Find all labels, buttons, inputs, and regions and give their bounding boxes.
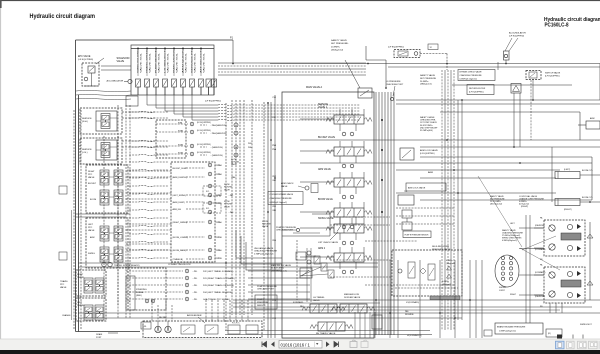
svg-text:(RED): (RED)	[136, 295, 142, 297]
right mid rails	[396, 207, 455, 209]
svg-text:SET PRESSURE:: SET PRESSURE:	[331, 43, 349, 45]
travel row P42	[126, 270, 183, 272]
service rows dashed box	[156, 120, 186, 158]
connect row PA8	[208, 163, 212, 167]
svg-text:PA2: PA2	[300, 305, 303, 308]
toolbar icon rotate 1	[350, 342, 357, 348]
bottom rail 4	[233, 306, 592, 308]
svg-text:(LF EQUIPPED): (LF EQUIPPED)	[420, 153, 435, 155]
svg-text:SWING VALVE: SWING VALVE	[318, 217, 334, 220]
svg-text:SLOW: SLOW	[224, 184, 230, 186]
connect row PB9	[208, 256, 212, 260]
svg-text:MERGE/FLOW: MERGE/FLOW	[344, 294, 360, 296]
svg-text:SERVICE: SERVICE	[82, 118, 92, 120]
svg-text:→PA8: →PA8	[216, 164, 223, 167]
svg-text:(LF EQUIPPED): (LF EQUIPPED)	[205, 101, 221, 103]
toolbar view cont facing	[589, 341, 598, 349]
svg-text:VALVE: VALVE	[224, 205, 231, 208]
svg-text:TRAVEL: TRAVEL	[60, 280, 69, 283]
svg-text:JOINT: JOINT	[499, 290, 506, 292]
svg-text:VALVE SOL: VALVE SOL	[194, 53, 197, 73]
motor right rail	[589, 222, 591, 300]
svg-text:PB0: PB0	[272, 240, 276, 242]
rail wire 7	[300, 139, 600, 141]
connector wire 1	[122, 111, 156, 113]
service row (SERVICE) 11	[156, 153, 188, 155]
svg-text:(TRAVEL/B): (TRAVEL/B)	[173, 258, 184, 261]
svg-text:PUMP R PRESSURE: PUMP R PRESSURE	[276, 227, 297, 229]
svg-text:(BOOM_RAISE): (BOOM_RAISE)	[173, 249, 187, 252]
connector wire 12	[126, 249, 172, 251]
svg-text:(RIGHT_SWING): (RIGHT_SWING)	[173, 222, 188, 224]
svg-text:PB1: PB1	[272, 206, 276, 208]
main valve right bus 7	[393, 92, 395, 335]
main valve right bus 2	[378, 92, 380, 335]
svg-text:P42N: P42N	[178, 144, 184, 146]
svg-text:CRACKING PRESSURE: CRACKING PRESSURE	[460, 74, 483, 77]
svg-text:→PA8: →PA8	[216, 173, 223, 176]
rail wire 5	[396, 103, 600, 105]
svg-text:→P8L: →P8L	[192, 299, 197, 301]
svg-text:PUMP F PRESSURE: PUMP F PRESSURE	[257, 286, 277, 288]
svg-text:→P8L: →P8L	[192, 285, 197, 287]
pilot bus vertical 4	[243, 100, 245, 315]
cooler bypass label	[268, 192, 303, 205]
svg-text:VALVE: VALVE	[88, 176, 95, 179]
svg-text:→ (SERVICE): → (SERVICE)	[209, 155, 223, 157]
main valve right bus 6	[390, 92, 392, 335]
svg-text:VALVE: VALVE	[117, 60, 125, 63]
svg-text:VALVE 1: VALVE 1	[318, 106, 328, 109]
svg-text:P43 (RIGHT TRAVEL REVERSE): P43 (RIGHT TRAVEL REVERSE)	[203, 284, 234, 287]
junction dots	[232, 63, 234, 65]
rail corner c	[599, 64, 600, 101]
svg-text:(LEFT): (LEFT)	[564, 169, 571, 171]
hose curve 3	[76, 98, 131, 99]
svg-text:P4M: P4M	[178, 122, 182, 124]
top feed wires	[218, 62, 366, 64]
svg-text:(RIGHT): (RIGHT)	[564, 209, 572, 211]
pilot hose wavy 18	[129, 257, 169, 258]
svg-text:VALVE: VALVE	[231, 163, 238, 166]
svg-text:BUCKET VALVE: BUCKET VALVE	[318, 136, 335, 139]
toolbar icon rotate 2	[361, 342, 368, 348]
return filter	[467, 85, 494, 95]
svg-text:PC160LC-8: PC160LC-8	[545, 23, 570, 29]
connector wire 9	[126, 223, 172, 225]
svg-text:RIGHT: RIGHT	[88, 171, 95, 173]
svg-text:VALVE SOL: VALVE SOL	[203, 53, 206, 73]
right travel valve box	[76, 270, 106, 296]
svg-text:VALVE SOL: VALVE SOL	[176, 53, 179, 73]
svg-text:DRAIN: DRAIN	[96, 333, 103, 336]
connector wire 5	[126, 170, 172, 172]
LF box link wire	[420, 53, 447, 55]
svg-text:ACCUMULATOR: ACCUMULATOR	[107, 80, 124, 83]
bottom rail 1b	[225, 330, 430, 332]
svg-text:(LF EQUIPPED): (LF EQUIPPED)	[197, 122, 211, 124]
RH travel spool	[318, 322, 345, 331]
svg-text:VALVE: VALVE	[313, 299, 320, 302]
svg-text:P#C P#C: P#C P#C	[232, 323, 240, 325]
svg-text:CONNECTING BLOCK: CONNECTING BLOCK	[168, 264, 191, 266]
solenoid valve spare a	[206, 79, 211, 87]
svg-text:P44 (LEFT TRAVEL REVERSE): P44 (LEFT TRAVEL REVERSE)	[203, 291, 233, 294]
svg-text:CHANGE: CHANGE	[62, 314, 71, 317]
pilot hose wavy 13	[129, 217, 169, 218]
svg-text:SWIVEL: SWIVEL	[499, 287, 507, 289]
travel row P43	[126, 284, 183, 286]
relief valve symbols inner	[321, 263, 327, 271]
bottom rail 3	[233, 299, 600, 301]
connect row PA5	[208, 193, 212, 197]
svg-text:CHECKING PORT: CHECKING PORT	[386, 84, 404, 86]
travel motor upper	[544, 220, 585, 256]
svg-text:→PA6: →PA6	[228, 211, 233, 214]
pump P1	[155, 326, 161, 332]
pilot hose wavy 6	[129, 161, 169, 162]
pilot hose wavy 1	[129, 111, 169, 112]
svg-text:SELF-REDUCING: SELF-REDUCING	[432, 246, 449, 248]
svg-text:(LF EQUIPPED): (LF EQUIPPED)	[469, 92, 484, 94]
svg-text:LEFT: LEFT	[88, 224, 94, 226]
svg-text:RIGHT: RIGHT	[510, 294, 517, 296]
staircase corner d	[282, 214, 330, 236]
pilot hose wavy 4	[129, 146, 169, 147]
svg-text:(LF EQUIPPED): (LF EQUIPPED)	[197, 144, 211, 146]
svg-text:PC1: PC1	[272, 300, 276, 302]
svg-text:P43N: P43N	[178, 130, 184, 132]
main valve left bus 2	[270, 102, 272, 338]
svg-text:SLOW: SLOW	[224, 201, 230, 203]
svg-text:(300 5kg/cm2): (300 5kg/cm2)	[490, 204, 502, 206]
svg-text:PPC: PPC	[88, 227, 93, 229]
connect row PB6	[208, 235, 212, 239]
mid horizontal rails	[78, 262, 378, 264]
inner wires lower	[293, 232, 320, 234]
connector wire 8	[126, 198, 172, 200]
pilot bus vertical 3	[239, 100, 241, 315]
EPC to solenoid wire	[101, 69, 131, 71]
right trunk verticals	[441, 70, 443, 330]
bottom verticals	[389, 260, 391, 338]
svg-text:0.9MPa(9kg/cm2): 0.9MPa(9kg/cm2)	[502, 240, 517, 242]
svg-text:VALVE: VALVE	[60, 286, 67, 289]
EPC valve spool	[88, 66, 95, 73]
left PPC valve box	[86, 218, 128, 268]
right trunk verticals2	[457, 100, 459, 320]
service row PA1(SERVICE) 8	[156, 123, 188, 125]
rail wire 11	[396, 169, 560, 171]
pilot hose wavy 10	[129, 193, 169, 194]
svg-text:→P8L: →P8L	[192, 278, 197, 280]
cylinder link wire	[551, 147, 553, 202]
toolbar background	[0, 339, 600, 350]
svg-text:P1: P1	[128, 280, 130, 282]
arm cylinder	[586, 121, 600, 129]
swing motor port mark	[557, 335, 562, 339]
pump gear box 3	[228, 325, 240, 334]
bottom rail 1c	[225, 334, 432, 336]
svg-text:SERVICE: SERVICE	[318, 104, 329, 106]
svg-text:730: 730	[404, 191, 407, 193]
svg-text:PVC: PVC	[272, 117, 277, 119]
pump gear box 2	[205, 325, 218, 334]
svg-text:BUCKET_DUMP: BUCKET_DUMP	[173, 168, 188, 170]
svg-text:PORT: PORT	[96, 337, 102, 339]
connector wire 7	[126, 192, 172, 194]
svg-text:LIFT CHECK VALVE: LIFT CHECK VALVE	[318, 241, 339, 244]
svg-text:0.3MPa(3.5kg/cm2): 0.3MPa(3.5kg/cm2)	[460, 78, 478, 80]
pilot bus junction wire	[225, 103, 227, 330]
svg-text:PA1: PA1	[273, 209, 276, 212]
bottom rail 2	[78, 317, 462, 319]
svg-text:SENSOR: SENSOR	[257, 305, 266, 307]
travel signal label	[102, 262, 106, 266]
travel row P41	[126, 277, 183, 279]
pilot bus vertical 2	[235, 100, 237, 315]
swivel joint	[495, 255, 519, 287]
svg-text:(LF EQU PRES): (LF EQU PRES)	[78, 59, 93, 61]
svg-text:→ (SERVICE): → (SERVICE)	[209, 147, 223, 149]
LF small tag	[428, 44, 438, 50]
svg-text:LS PRESSURE: LS PRESSURE	[386, 81, 401, 83]
toolbar btn prev page	[271, 342, 275, 348]
svg-text:ARM LOCK VALVE: ARM LOCK VALVE	[408, 187, 426, 190]
svg-text:P41: P41	[273, 97, 276, 99]
connector wire 11	[126, 243, 172, 245]
bottom rail 6	[250, 309, 560, 311]
right PPC valve box	[86, 165, 128, 213]
service row (SERVICE) 10	[156, 145, 188, 147]
svg-text:#PA6: #PA6	[231, 176, 235, 179]
left margin dashed verticals	[73, 110, 75, 330]
svg-text:39.2MPa(400): 39.2MPa(400)	[420, 130, 433, 132]
svg-text:REVERSE: REVERSE	[405, 314, 414, 316]
pilot hose wavy 11	[129, 201, 169, 202]
arm lock chain	[402, 210, 412, 218]
self reducing valve box	[392, 250, 462, 296]
svg-text:P3: P3	[128, 294, 130, 296]
hose curve 1	[76, 90, 131, 91]
svg-text:UNLOADING VALVE: UNLOADING VALVE	[254, 247, 274, 250]
rail wire 10	[300, 162, 592, 164]
pump gear box 4	[246, 325, 258, 334]
switch valve wires	[532, 80, 534, 101]
main valve right bus 5	[387, 92, 389, 335]
pilot hose wavy 16	[129, 241, 169, 242]
svg-text:VALVE SOL: VALVE SOL	[158, 53, 161, 73]
accumulator wire	[497, 62, 499, 70]
svg-text:(LF EQUIPPED): (LF EQUIPPED)	[388, 47, 404, 49]
rail corner b	[591, 157, 593, 200]
pump shaft wires	[151, 300, 153, 321]
svg-text:BOOM VALVE: BOOM VALVE	[318, 198, 333, 201]
svg-text:PA2 PA1: PA2 PA1	[159, 316, 166, 319]
bottom rail 5	[233, 302, 380, 304]
svg-text:SET PRESSURE: SET PRESSURE	[420, 78, 437, 80]
steering signal box	[128, 268, 166, 310]
arm lock valve symbol	[400, 148, 414, 160]
pump assembly box	[143, 321, 262, 338]
svg-text:(FORWARD): (FORWARD)	[535, 271, 546, 274]
arm check valve symbol	[305, 186, 309, 190]
relief symbols	[300, 268, 312, 278]
left pilot bus vertical 2	[125, 105, 127, 318]
svg-text:PA2: PA2	[273, 179, 276, 182]
connector wire 2	[122, 117, 156, 119]
solenoid bank top bus wire	[131, 48, 214, 50]
rail wire 1	[270, 63, 600, 65]
main valve right bus 3	[381, 92, 383, 335]
svg-text:P4: P4	[128, 301, 130, 303]
svg-text:PRESSURE VALVE: PRESSURE VALVE	[432, 248, 451, 251]
svg-text:26.9MPa: 26.9MPa	[420, 81, 429, 83]
pilot hose wavy 15	[129, 233, 169, 234]
svg-text:→PB6: →PB6	[216, 237, 223, 239]
svg-text:SWING MOT: SWING MOT	[580, 324, 593, 326]
pilot bus vertical 1	[231, 100, 233, 315]
rail corner a	[579, 112, 581, 140]
toolbar right partial	[599, 341, 600, 349]
svg-text:EPC VALVE: EPC VALVE	[78, 55, 91, 58]
bottom rail 1	[78, 312, 600, 314]
svg-text:(350kg/cm2): (350kg/cm2)	[331, 50, 343, 52]
tag LF EQUIPPED	[126, 96, 138, 106]
svg-text:LH TRAVEL: LH TRAVEL	[313, 296, 325, 299]
solenoid valve spare b	[212, 79, 217, 87]
svg-text:VO(FORWARD): VO(FORWARD)	[406, 301, 419, 304]
travel row G4A	[126, 298, 183, 300]
svg-text:→PA6: →PA6	[216, 221, 223, 224]
toolbar view single (active)	[556, 341, 565, 349]
margin port box b	[59, 252, 67, 260]
svg-text:0.3MPa(3.5kg/cm2): 0.3MPa(3.5kg/cm2)	[270, 202, 288, 204]
svg-text:RIGHT: RIGHT	[77, 274, 84, 276]
svg-text:RETURN: RETURN	[224, 204, 233, 206]
svg-text:34.8/37.3MPa: 34.8/37.3MPa	[271, 268, 285, 270]
main valve right bus 1	[375, 92, 377, 335]
svg-text:BOOM CYL.: BOOM CYL.	[582, 197, 594, 199]
ppc divider rails	[76, 213, 131, 215]
hose curve 2	[76, 94, 131, 95]
svg-text:(REVERSE): (REVERSE)	[535, 225, 545, 227]
main valve left bus 4	[263, 102, 265, 330]
toolbar view facing	[578, 341, 587, 349]
main valve left bus 3	[274, 95, 276, 338]
pilot hose wavy 2	[129, 117, 169, 118]
pump P2	[165, 326, 171, 332]
svg-text:ARM LOCK VALVE: ARM LOCK VALVE	[420, 149, 438, 152]
svg-text:(ARM_DUMP/G): (ARM_DUMP/G)	[173, 176, 187, 179]
svg-text:CRACKING PRESSURE: CRACKING PRESSURE	[254, 250, 278, 253]
frame second vertical wire	[78, 95, 80, 332]
svg-text:VALVE: VALVE	[88, 229, 95, 232]
svg-text:P42 (LEFT TRAVEL FORWARD): P42 (LEFT TRAVEL FORWARD)	[203, 270, 234, 273]
reducing valve hatch row	[430, 296, 460, 300]
svg-text:MAIN VALVE A: MAIN VALVE A	[306, 86, 323, 89]
connect row PB5	[208, 201, 212, 205]
svg-text:(355/380kg/cm2): (355/380kg/cm2)	[271, 270, 287, 272]
svg-text:PPC: PPC	[60, 284, 65, 286]
window bottom bar	[0, 350, 600, 354]
svg-text:(LF EQUIPPED): (LF EQUIPPED)	[197, 152, 211, 154]
svg-text:(LF EQUIPPED): (LF EQUIPPED)	[509, 36, 524, 38]
rail wire 14	[420, 199, 592, 201]
svg-text:(REVERSE): (REVERSE)	[535, 296, 545, 298]
svg-text:(LEFT_SWING): (LEFT_SWING)	[173, 195, 187, 197]
svg-text:1.8MPa(12kg/cm2): 1.8MPa(12kg/cm2)	[499, 331, 516, 333]
connector wire 6	[126, 176, 172, 178]
svg-text:BOOM CYL.: BOOM CYL.	[582, 170, 594, 172]
svg-text:VALVE SOL: VALVE SOL	[167, 53, 170, 73]
staircase corner c	[246, 242, 282, 270]
rail wire 9	[420, 156, 592, 158]
svg-text:SIGNAL: SIGNAL	[136, 291, 144, 294]
rail wire 2	[388, 66, 600, 68]
svg-text:Hydraulic circuit diagram: Hydraulic circuit diagram	[30, 14, 96, 20]
margin port box a	[59, 186, 67, 194]
svg-text:→ PA1(SERVICE): → PA1(SERVICE)	[209, 124, 227, 127]
connect row 212	[208, 210, 212, 214]
rail wire 4	[396, 99, 600, 101]
svg-text:ACCUMULATOR: ACCUMULATOR	[509, 32, 526, 35]
window left edge	[0, 0, 1, 354]
svg-text:→PB5: →PB5	[216, 203, 223, 205]
pilot hose wavy 5	[129, 154, 169, 155]
frame top wire	[76, 39, 234, 41]
pilot hose wavy 9	[129, 185, 169, 186]
svg-text:P41 (RIGHT TRAVEL FORWARD): P41 (RIGHT TRAVEL FORWARD)	[203, 277, 235, 280]
connect row PA6	[208, 220, 212, 224]
arm lock valve box	[406, 183, 446, 191]
frame bottom wire	[76, 331, 141, 333]
svg-text:DIVIDER VALVE: DIVIDER VALVE	[344, 296, 361, 299]
left pilot bus vertical 3	[129, 105, 131, 318]
svg-text:ARM: ARM	[428, 171, 433, 174]
motor leader lines	[520, 248, 560, 270]
svg-text:VALVE: VALVE	[262, 225, 269, 228]
connect row PA8	[208, 172, 212, 176]
svg-text:F#1: F#1	[206, 208, 209, 210]
frame left vertical wire	[75, 40, 77, 332]
svg-text:(R): (R)	[548, 333, 551, 335]
swivel to motor wires	[519, 227, 544, 229]
svg-text:→P8L: →P8L	[192, 271, 197, 273]
rail wire 6	[440, 111, 580, 113]
toolbar btn first page	[262, 342, 267, 348]
staircase corner b	[241, 236, 282, 264]
top step wire	[365, 46, 367, 60]
EPC valve box	[82, 63, 99, 86]
svg-text:SWING: SWING	[88, 253, 95, 255]
bypass check valve label	[458, 70, 495, 81]
solenoid drop wire 6	[191, 95, 193, 120]
connecting block box	[171, 162, 215, 262]
svg-text:P41N: P41N	[178, 152, 184, 154]
connector wire 4	[122, 146, 156, 148]
svg-text:CHECKING PORT: CHECKING PORT	[257, 289, 275, 291]
pilot hose wavy 7	[129, 169, 169, 170]
svg-text:3.0MPa: 3.0MPa	[442, 281, 449, 283]
connector wire 10	[126, 229, 172, 231]
svg-text:BYPASS CHECK VALVE: BYPASS CHECK VALVE	[460, 71, 483, 74]
trvl tag	[141, 322, 151, 329]
svg-text:(L.N.): (L.N.)	[82, 152, 88, 154]
left travel valve box	[76, 298, 106, 321]
rail wire 3	[452, 84, 572, 86]
rail wire 12	[420, 177, 556, 179]
